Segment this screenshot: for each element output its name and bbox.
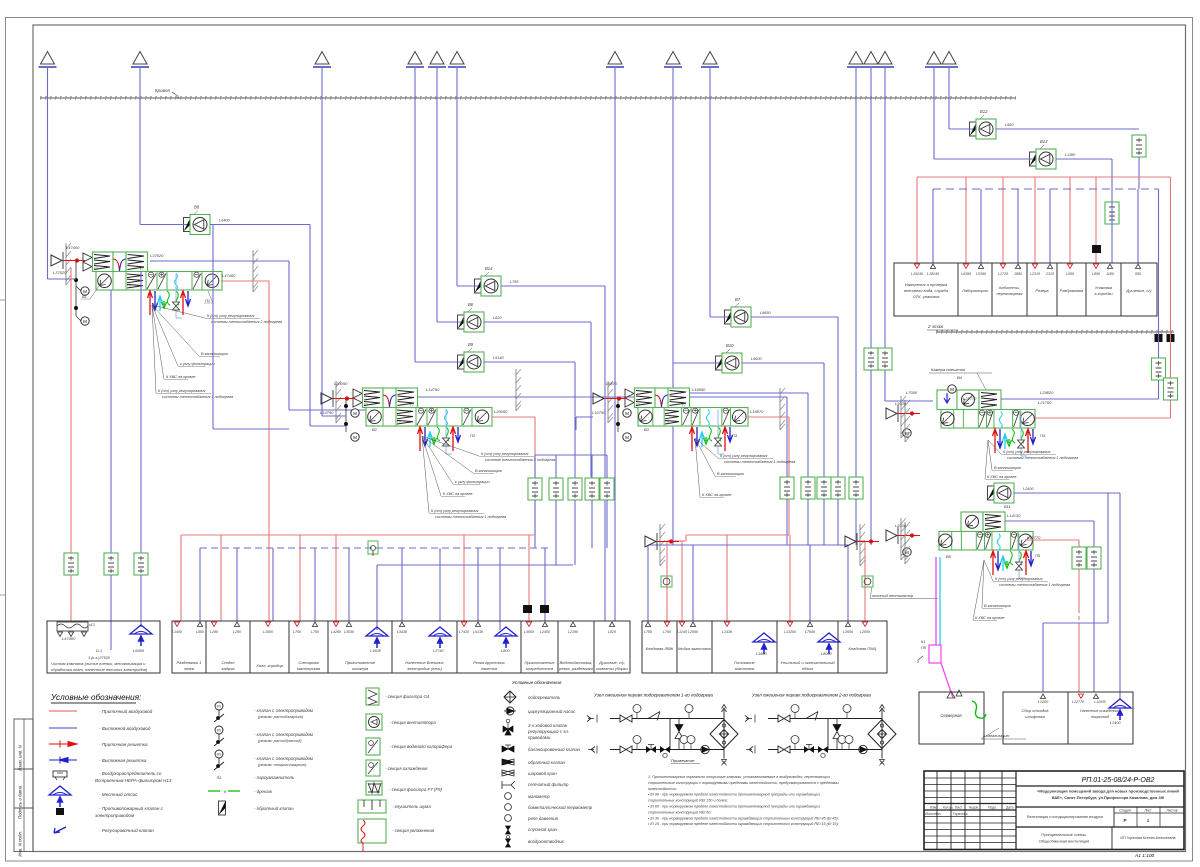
svg-text:электродов (печь): электродов (печь) bbox=[407, 666, 442, 671]
svg-text:1: 1 bbox=[1147, 818, 1150, 823]
svg-text:В8: В8 bbox=[194, 205, 200, 210]
svg-text:L47400: L47400 bbox=[222, 273, 236, 278]
svg-text:Душевые, с/у: Душевые, с/у bbox=[1126, 288, 1153, 293]
svg-text:внешнего вида, служба: внешнего вида, служба bbox=[904, 288, 949, 293]
svg-text:РП.01-25-08/24-Р-ОВ2: РП.01-25-08/24-Р-ОВ2 bbox=[1082, 777, 1155, 784]
svg-text:L37520: L37520 bbox=[53, 270, 67, 275]
svg-text:Сбор отходов: Сбор отходов bbox=[1022, 708, 1049, 713]
svg-text:L6400: L6400 bbox=[219, 219, 230, 223]
svg-text:Резерв: Резерв bbox=[1035, 288, 1048, 293]
svg-text:В канализацию: В канализацию bbox=[984, 604, 1011, 608]
svg-text:L5138: L5138 bbox=[473, 630, 483, 634]
svg-text:D-1: D-1 bbox=[96, 649, 102, 653]
svg-text:- Приточный воздуховод: - Приточный воздуховод bbox=[99, 708, 153, 714]
svg-text:L750: L750 bbox=[311, 630, 319, 634]
svg-text:L3656: L3656 bbox=[843, 630, 853, 634]
svg-text:L3438: L3438 bbox=[397, 630, 407, 634]
svg-text:L2190: L2190 bbox=[568, 630, 578, 634]
svg-text:К ХВС на кровле: К ХВС на кровле bbox=[975, 616, 1004, 620]
svg-text:«Модернизация помещений завода: «Модернизация помещений завода для новых… bbox=[1037, 789, 1179, 794]
svg-text:К (от) узлу регулирования: К (от) узлу регулирования bbox=[431, 509, 478, 513]
svg-text:• EI 30 - при нормируемом: • EI 30 - при нормируемом пределе огнест… bbox=[648, 816, 839, 820]
svg-text:строительные конструкции с нор: строительные конструкции с нормируемыми … bbox=[648, 781, 839, 785]
svg-text:3-х ходовой клапан: 3-х ходовой клапан bbox=[528, 723, 568, 728]
svg-text:- Противопожарный клапан с: - Противопожарный клапан с bbox=[99, 805, 164, 811]
svg-text:ОТК, упаковка: ОТК, упаковка bbox=[913, 294, 941, 299]
svg-text:L20050: L20050 bbox=[334, 381, 348, 386]
svg-text:реле давления: реле давления bbox=[527, 816, 559, 821]
svg-text:Кабинеты,: Кабинеты, bbox=[999, 285, 1020, 290]
svg-text:П5: П5 bbox=[1035, 553, 1041, 558]
svg-text:Общеобменная вентиляция: Общеобменная вентиляция bbox=[1039, 839, 1090, 844]
svg-text:L14790: L14790 bbox=[426, 387, 440, 392]
svg-text:F9: F9 bbox=[127, 284, 131, 288]
svg-text:системы теплоснабжения 1 подог: системы теплоснабжения 1 подогрева bbox=[724, 460, 795, 464]
svg-text:Слесарная: Слесарная bbox=[298, 660, 319, 665]
svg-text:L290: L290 bbox=[210, 630, 218, 634]
svg-text:Инв. N подл.: Инв. N подл. bbox=[18, 831, 23, 857]
svg-text:П3: П3 bbox=[732, 433, 738, 438]
svg-text:L1600: L1600 bbox=[756, 652, 767, 656]
svg-text:системы теплоснабжения 1 подог: системы теплоснабжения 1 подогрева bbox=[435, 515, 506, 519]
svg-text:- секция фильтра F7 (F9): - секция фильтра F7 (F9) bbox=[389, 787, 442, 792]
svg-text:550: 550 bbox=[1135, 272, 1141, 276]
svg-text:L2400: L2400 bbox=[1023, 487, 1034, 491]
svg-text:ингредиентов: ингредиентов bbox=[526, 666, 553, 671]
svg-text:Условные обозначения: Условные обозначения bbox=[512, 680, 562, 685]
svg-text:- Приточная решетка: - Приточная решетка bbox=[99, 742, 148, 747]
svg-text:L750: L750 bbox=[663, 630, 671, 634]
svg-text:- клапан с электроприводом: - клапан с электроприводом bbox=[254, 708, 313, 713]
svg-text:(режим: расход/расход): (режим: расход/расход) bbox=[258, 738, 302, 743]
svg-text:L5870: L5870 bbox=[606, 381, 618, 386]
svg-text:А1 1:100: А1 1:100 bbox=[1134, 853, 1155, 859]
svg-text:Вентиляция и кондиционирование: Вентиляция и кондиционирование воздуха bbox=[1027, 815, 1104, 819]
svg-text:К (от) узлу регулирования: К (от) узлу регулирования bbox=[207, 314, 254, 318]
svg-text:электроприводом: электроприводом bbox=[95, 813, 135, 818]
svg-text:К ХВС на кровле: К ХВС на кровле bbox=[987, 475, 1016, 479]
svg-text:F7: F7 bbox=[682, 403, 686, 407]
svg-text:переговорная: переговорная bbox=[996, 291, 1023, 296]
svg-text:огнестойкости:: огнестойкости: bbox=[648, 787, 677, 791]
svg-text:резка, раздевалка: резка, раздевалка bbox=[558, 666, 594, 671]
svg-text:Водоподготовка,: Водоподготовка, bbox=[560, 660, 593, 665]
svg-text:Нанесение осажденных: Нанесение осажденных bbox=[1080, 709, 1120, 713]
svg-text:1.(к.з.)37520: 1.(к.з.)37520 bbox=[88, 656, 111, 660]
svg-text:системы теплоснабжения 1 подог: системы теплоснабжения 1 подогрева bbox=[162, 395, 233, 399]
svg-text:обратный клапан: обратный клапан bbox=[528, 760, 566, 765]
svg-text:Кровля: Кровля bbox=[155, 88, 170, 93]
svg-text:ВАЕ», Санкт-Петербург, ул.Проф: ВАЕ», Санкт-Петербург, ул.Профессора Кач… bbox=[1052, 795, 1165, 800]
svg-text:Узел смешения перевл.подогре: Узел смешения перевл.подогревателем 2-го… bbox=[752, 693, 871, 698]
svg-text:Примечание:: Примечание: bbox=[671, 758, 695, 763]
svg-text:1880: 1880 bbox=[1014, 272, 1022, 276]
svg-text:системы теплоснабжения 1 подог: системы теплоснабжения 1 подогрева bbox=[1007, 456, 1078, 460]
svg-text:Горячева: Горячева bbox=[953, 812, 968, 816]
svg-text:К (от) узлу регулирования: К (от) узлу регулирования bbox=[1003, 450, 1050, 454]
svg-text:К1: К1 bbox=[921, 640, 925, 644]
svg-text:В6: В6 bbox=[468, 302, 474, 307]
svg-text:пакетов: пакетов bbox=[481, 666, 497, 671]
svg-text:- секция фильтра G4: - секция фильтра G4 bbox=[385, 694, 430, 699]
svg-text:L21700: L21700 bbox=[1038, 400, 1052, 405]
svg-text:- обратный клапан: - обратный клапан bbox=[254, 806, 294, 811]
svg-text:L650: L650 bbox=[1005, 123, 1014, 127]
svg-text:• EI 60 - при нормируемом: • EI 60 - при нормируемом пределе огнест… bbox=[648, 805, 820, 809]
svg-text:L1240: L1240 bbox=[677, 630, 687, 634]
svg-text:шаровой кран: шаровой кран bbox=[528, 771, 557, 776]
svg-text:- глушитель шума: - глушитель шума bbox=[392, 804, 431, 809]
svg-text:Мойка заготовок: Мойка заготовок bbox=[678, 646, 712, 651]
svg-text:балансировочный клапан: балансировочный клапан bbox=[528, 747, 581, 752]
svg-text:сетчатый фильтр: сетчатый фильтр bbox=[528, 782, 569, 787]
svg-text:ИП Горячева Ксения Алексеевна: ИП Горячева Ксения Алексеевна bbox=[1120, 836, 1175, 840]
svg-text:Р: Р bbox=[1123, 818, 1126, 823]
svg-text:L550: L550 bbox=[1066, 272, 1074, 276]
svg-text:• EI 90 - при нормируемом: • EI 90 - при нормируемом пределе огнест… bbox=[648, 793, 820, 797]
svg-text:В1: В1 bbox=[82, 294, 87, 299]
svg-text:к узлу фильтрации: к узлу фильтрации bbox=[180, 362, 216, 366]
svg-text:этаж: этаж bbox=[184, 666, 194, 671]
svg-text:• EI 15 - при нормируемом: • EI 15 - при нормируемом пределе огнест… bbox=[648, 822, 839, 826]
svg-text:мастерская: мастерская bbox=[297, 666, 321, 671]
svg-text:- Вытяжной воздуховод: - Вытяжной воздуховод bbox=[99, 725, 151, 731]
svg-text:M3: M3 bbox=[217, 753, 222, 757]
svg-text:циркуляционный насос: циркуляционный насос bbox=[528, 709, 576, 714]
svg-text:- дренаж: - дренаж bbox=[254, 789, 273, 794]
svg-text:L21770: L21770 bbox=[963, 396, 977, 401]
svg-text:- пароувлажнитель: - пароувлажнитель bbox=[254, 775, 295, 780]
svg-text:обработка плат, нанесение внеш: обработка плат, нанесение внешних электр… bbox=[51, 667, 148, 672]
svg-text:Принципиальные схемы.: Принципиальные схемы. bbox=[1041, 832, 1086, 837]
svg-text:П4: П4 bbox=[1040, 433, 1046, 438]
svg-text:1. Противопожарные нормально: 1. Противопожарные нормально открытые кл… bbox=[648, 775, 830, 779]
svg-text:L2400: L2400 bbox=[540, 630, 550, 634]
svg-text:L290: L290 bbox=[233, 630, 241, 634]
svg-text:В10: В10 bbox=[726, 343, 734, 348]
svg-text:- Воздухораспределитель со: - Воздухораспределитель со bbox=[99, 771, 162, 776]
svg-text:L1725: L1725 bbox=[998, 272, 1008, 276]
svg-text:- клапан с электроприводом: - клапан с электроприводом bbox=[254, 732, 313, 737]
svg-text:L2310: L2310 bbox=[1030, 272, 1040, 276]
svg-text:В14: В14 bbox=[485, 266, 493, 271]
svg-text:системе теплоснабжения 2 подог: системе теплоснабжения 2 подогрева bbox=[485, 458, 555, 462]
svg-text:L2060: L2060 bbox=[688, 630, 698, 634]
svg-text:Пб: Пб bbox=[921, 646, 927, 650]
svg-text:L1608: L1608 bbox=[370, 649, 381, 653]
svg-text:Утильный и окончательный: Утильный и окончательный bbox=[780, 660, 835, 665]
svg-text:воздухоотводчик: воздухоотводчик bbox=[528, 839, 565, 844]
svg-text:№док.: №док. bbox=[969, 806, 979, 810]
svg-text:К (от) узлу регулирования: К (от) узлу регулирования bbox=[158, 389, 205, 393]
svg-text:M1: M1 bbox=[217, 705, 222, 709]
svg-text:К (от) узлу регулирования: К (от) узлу регулирования bbox=[995, 577, 1042, 581]
svg-text:Лаборатории: Лаборатории bbox=[961, 288, 989, 293]
svg-text:L14130: L14130 bbox=[1007, 513, 1021, 518]
svg-text:L12930: L12930 bbox=[1094, 700, 1105, 704]
svg-text:Встроенным НЕРА-фильтром Н13: Встроенным НЕРА-фильтром Н13 bbox=[95, 778, 172, 783]
svg-text:Взам. инв. N: Взам. инв. N bbox=[18, 744, 23, 770]
svg-text:в канализацию: в канализацию bbox=[983, 734, 1009, 738]
svg-text:Приготовление: Приготовление bbox=[524, 660, 555, 665]
svg-text:В2: В2 bbox=[372, 427, 378, 432]
svg-text:В5: В5 bbox=[946, 554, 952, 559]
svg-text:Отдел: Отдел bbox=[222, 660, 236, 665]
svg-text:L20050: L20050 bbox=[494, 409, 508, 414]
svg-text:L4280: L4280 bbox=[331, 630, 341, 634]
svg-text:комнаты уборки: комнаты уборки bbox=[596, 666, 628, 671]
svg-text:обжиг: обжиг bbox=[802, 666, 813, 671]
svg-text:L820: L820 bbox=[608, 630, 616, 634]
svg-text:к узлу фильтрации: к узлу фильтрации bbox=[455, 480, 491, 484]
svg-text:L9600: L9600 bbox=[751, 357, 762, 361]
svg-text:Узел смешения перевл.подогре: Узел смешения перевл.подогревателем 1-го… bbox=[594, 693, 713, 698]
svg-text:в коробки: в коробки bbox=[1094, 291, 1113, 296]
svg-text:L19240: L19240 bbox=[911, 272, 923, 276]
svg-text:- секция увлажнения: - секция увлажнения bbox=[392, 828, 435, 833]
svg-text:покрытий: покрытий bbox=[1091, 715, 1110, 719]
svg-text:В канализацию: В канализацию bbox=[994, 466, 1021, 470]
svg-text:L14790: L14790 bbox=[320, 410, 334, 415]
svg-text:Резка групповых: Резка групповых bbox=[473, 660, 506, 665]
svg-text:M2: M2 bbox=[217, 729, 222, 733]
svg-text:П1: П1 bbox=[205, 298, 210, 303]
svg-text:L47400: L47400 bbox=[62, 636, 76, 641]
svg-text:L1180: L1180 bbox=[1065, 153, 1076, 157]
svg-text:L47400: L47400 bbox=[66, 245, 80, 250]
svg-text:приводами: приводами bbox=[528, 735, 551, 740]
svg-text:К ХВС на кровле: К ХВС на кровле bbox=[443, 492, 472, 496]
svg-text:L2400: L2400 bbox=[1110, 721, 1121, 725]
svg-text:Дата: Дата bbox=[1006, 806, 1014, 810]
svg-text:L7050: L7050 bbox=[906, 390, 918, 395]
svg-text:Кладовая ПМЦ: Кладовая ПМЦ bbox=[849, 646, 877, 651]
svg-text:К ХВС на кровле: К ХВС на кровле bbox=[702, 493, 731, 497]
svg-text:L18240: L18240 bbox=[927, 272, 939, 276]
svg-text:В канализацию: В канализацию bbox=[201, 352, 228, 356]
svg-text:L12770: L12770 bbox=[1072, 700, 1084, 704]
svg-text:Изм.: Изм. bbox=[930, 806, 937, 810]
svg-text:К (от) узлу регулирования: К (от) узлу регулирования bbox=[481, 452, 528, 456]
svg-text:L2740: L2740 bbox=[433, 649, 444, 653]
svg-text:кадров: кадров bbox=[222, 666, 235, 671]
svg-text:системы теплоснабжения 1 подог: системы теплоснабжения 1 подогрева bbox=[999, 583, 1070, 587]
svg-text:Чистая комната (литье пленки,: Чистая комната (литье пленки, металлизац… bbox=[51, 661, 146, 666]
svg-text:- Регулировочный клапан: - Регулировочный клапан bbox=[99, 827, 154, 833]
svg-text:оконный вентилятор: оконный вентилятор bbox=[872, 593, 914, 598]
svg-text:L16950: L16950 bbox=[692, 387, 706, 392]
svg-text:(режим: открыт/закрыт): (режим: открыт/закрыт) bbox=[258, 762, 307, 767]
svg-text:Листов: Листов bbox=[1166, 809, 1177, 813]
svg-text:манометр: манометр bbox=[528, 794, 550, 799]
svg-text:Условные обозначения:: Условные обозначения: bbox=[50, 693, 141, 702]
svg-text:L7840: L7840 bbox=[805, 630, 815, 634]
svg-text:Холл, коридор: Холл, коридор bbox=[255, 663, 283, 668]
svg-text:Упаковка: Упаковка bbox=[1095, 285, 1113, 290]
svg-text:В канализацию: В канализацию bbox=[475, 469, 502, 473]
svg-text:шлифовка: шлифовка bbox=[1025, 714, 1045, 719]
svg-text:- секция водяного калорифера: - секция водяного калорифера bbox=[389, 744, 453, 749]
svg-text:К (от) узлу регулирования: К (от) узлу регулирования bbox=[720, 454, 767, 458]
svg-text:биметаллический термометр: биметаллический термометр bbox=[528, 805, 593, 810]
svg-text:К ХВС на кровле: К ХВС на кровле bbox=[166, 375, 195, 379]
svg-text:регулирующий с эл.: регулирующий с эл. bbox=[527, 729, 569, 734]
svg-text:F9: F9 bbox=[665, 420, 669, 424]
svg-text:Подпись и дата: Подпись и дата bbox=[18, 785, 23, 819]
svg-text:L13200: L13200 bbox=[784, 630, 796, 634]
svg-text:Кладовая ЛВЖ: Кладовая ЛВЖ bbox=[646, 646, 674, 651]
svg-text:Раздевалки 1: Раздевалки 1 bbox=[177, 660, 202, 665]
svg-text:- клапан с электроприводом: - клапан с электроприводом bbox=[254, 756, 313, 761]
svg-text:F7: F7 bbox=[140, 267, 144, 271]
svg-text:шликера: шликера bbox=[352, 666, 369, 671]
svg-text:L8000: L8000 bbox=[821, 652, 832, 656]
svg-text:Приготовление: Приготовление bbox=[345, 660, 376, 665]
svg-text:F7: F7 bbox=[636, 403, 640, 407]
svg-text:В13: В13 bbox=[1040, 139, 1048, 144]
svg-text:В7: В7 bbox=[735, 297, 741, 302]
svg-text:В3: В3 bbox=[644, 427, 650, 432]
svg-text:L785: L785 bbox=[644, 630, 652, 634]
svg-text:L5390: L5390 bbox=[976, 272, 986, 276]
svg-text:L1500: L1500 bbox=[263, 630, 273, 634]
svg-text:Душевые, с/у,: Душевые, с/у, bbox=[598, 660, 625, 665]
svg-text:Подп.: Подп. bbox=[988, 806, 997, 810]
svg-text:Исполнил: Исполнил bbox=[925, 812, 941, 816]
svg-text:Разбраковка: Разбраковка bbox=[1060, 288, 1084, 293]
svg-text:Измерения и проверка: Измерения и проверка bbox=[905, 282, 948, 287]
svg-text:L7410: L7410 bbox=[459, 630, 469, 634]
svg-text:L37520: L37520 bbox=[150, 253, 164, 258]
svg-text:строительных конструкций REI 1: строительных конструкций REI 150 и более… bbox=[648, 799, 728, 803]
svg-text:L820: L820 bbox=[493, 316, 502, 320]
svg-text:Лист: Лист bbox=[1144, 809, 1152, 813]
svg-text:П2: П2 bbox=[470, 433, 476, 438]
svg-text:L785: L785 bbox=[510, 280, 519, 284]
svg-text:Лист: Лист bbox=[955, 806, 963, 810]
svg-text:подогреватель: подогреватель bbox=[528, 695, 561, 700]
svg-text:В канализацию: В канализацию bbox=[717, 472, 744, 476]
svg-text:L2000: L2000 bbox=[860, 630, 870, 634]
svg-text:L29820: L29820 bbox=[1040, 390, 1054, 395]
svg-text:Нанесение Внешних: Нанесение Внешних bbox=[405, 660, 444, 665]
svg-text:2315: 2315 bbox=[1045, 272, 1054, 276]
svg-text:В11: В11 bbox=[1004, 505, 1010, 509]
svg-text:- секция охлаждения: - секция охлаждения bbox=[385, 766, 428, 771]
svg-text:системы теплоснабжения 2 подог: системы теплоснабжения 2 подогрева bbox=[211, 320, 282, 324]
svg-text:- секция вентилятора: - секция вентилятора bbox=[389, 720, 436, 725]
svg-text:L1400: L1400 bbox=[172, 630, 182, 634]
svg-text:заготовок: заготовок bbox=[734, 666, 756, 671]
svg-text:L6400: L6400 bbox=[133, 648, 145, 653]
svg-text:L3060: L3060 bbox=[524, 630, 534, 634]
svg-text:F7: F7 bbox=[94, 267, 98, 271]
svg-text:- Вытяжная решетка: - Вытяжная решетка bbox=[99, 758, 147, 763]
svg-text:строительных конструкций REI 6: строительных конструкций REI 60; bbox=[648, 810, 711, 814]
svg-text:L3530: L3530 bbox=[344, 630, 354, 634]
svg-text:Серверная: Серверная bbox=[940, 713, 962, 718]
svg-text:L10750: L10750 bbox=[592, 410, 606, 415]
svg-text:- Местный отсос: - Местный отсос bbox=[99, 791, 138, 797]
svg-text:x13: x13 bbox=[88, 623, 95, 627]
svg-text:Стадия: Стадия bbox=[1119, 809, 1131, 813]
svg-text:L800: L800 bbox=[501, 649, 510, 653]
svg-text:Готование: Готование bbox=[734, 660, 755, 665]
svg-text:L890: L890 bbox=[1092, 272, 1100, 276]
svg-text:F7: F7 bbox=[410, 403, 414, 407]
svg-text:L9650: L9650 bbox=[760, 311, 771, 315]
svg-text:L5140: L5140 bbox=[493, 356, 504, 360]
svg-text:спускной кран: спускной кран bbox=[528, 827, 558, 832]
svg-text:L1436: L1436 bbox=[722, 630, 732, 634]
svg-text:L500: L500 bbox=[196, 630, 204, 634]
svg-text:(режим: расход/закрыт): (режим: расход/закрыт) bbox=[258, 714, 304, 719]
svg-text:Камера смешения: Камера смешения bbox=[931, 367, 966, 372]
svg-text:L750: L750 bbox=[293, 630, 301, 634]
svg-text:1180: 1180 bbox=[1106, 272, 1114, 276]
svg-text:В12: В12 bbox=[980, 109, 988, 114]
svg-text:В9: В9 bbox=[468, 342, 474, 347]
svg-text:F7: F7 bbox=[364, 403, 368, 407]
svg-text:Кол.уч.: Кол.уч. bbox=[943, 806, 954, 810]
svg-text:L1200: L1200 bbox=[1038, 700, 1049, 704]
svg-text:L6390: L6390 bbox=[961, 272, 971, 276]
svg-text:L12770: L12770 bbox=[1027, 535, 1041, 540]
svg-text:L15870: L15870 bbox=[750, 409, 764, 414]
svg-text:F9: F9 bbox=[397, 420, 401, 424]
svg-text:В4: В4 bbox=[957, 375, 963, 380]
svg-text:2 этаж: 2 этаж bbox=[927, 324, 944, 329]
